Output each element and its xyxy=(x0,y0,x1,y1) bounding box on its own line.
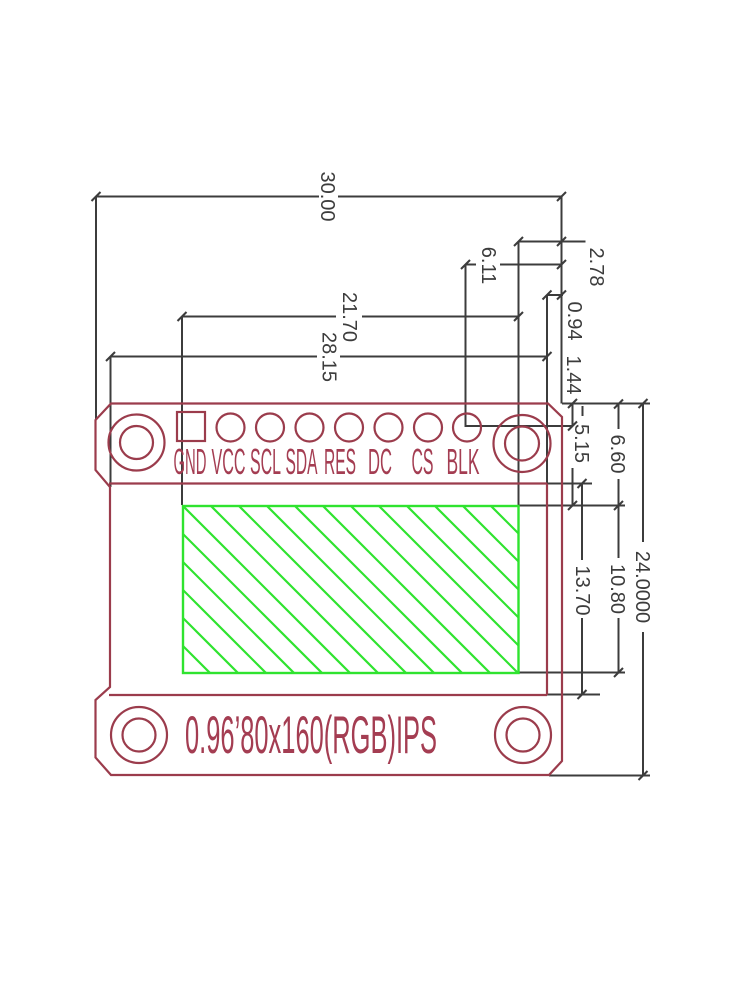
pad CS xyxy=(414,414,442,442)
svg-text:1.44: 1.44 xyxy=(562,356,584,395)
dimension 28.15 line xyxy=(111,356,548,358)
dimension 10.80 line xyxy=(618,506,620,673)
dimension 5.15 line xyxy=(572,468,574,506)
svg-text:SDA: SDA xyxy=(286,441,318,482)
display active area xyxy=(183,506,519,673)
svg-text:SCL: SCL xyxy=(250,441,281,482)
svg-text:6.11: 6.11 xyxy=(477,247,499,284)
dimension 13.70 ticks xyxy=(578,479,587,699)
svg-text:DC: DC xyxy=(368,441,392,482)
glass bottom right extension xyxy=(519,672,626,674)
dimension 6.11 extension xyxy=(465,265,467,428)
dimension 1.44 stub xyxy=(582,406,584,416)
svg-text:RES: RES xyxy=(324,441,356,482)
svg-text:0.94: 0.94 xyxy=(563,302,585,341)
body bottom right extension xyxy=(547,694,600,696)
svg-text:VCC: VCC xyxy=(212,441,246,482)
pad SDA xyxy=(296,414,324,442)
strip line right extension xyxy=(548,483,592,485)
pad DC xyxy=(375,414,403,442)
svg-text:13.70: 13.70 xyxy=(571,565,593,615)
svg-text:0.96’80x160(RGB)IPS: 0.96’80x160(RGB)IPS xyxy=(185,706,437,765)
dimension 5.15 ticks xyxy=(568,422,577,511)
svg-text:28.15: 28.15 xyxy=(318,332,340,382)
dimension 21.70 ticks xyxy=(178,312,524,321)
dimension 6.11 line xyxy=(466,264,562,266)
dimension 6.60 ticks xyxy=(614,400,623,511)
glass right edge xyxy=(546,484,548,696)
svg-text:2.78: 2.78 xyxy=(585,248,607,287)
svg-text:24.0000: 24.0000 xyxy=(631,551,653,623)
dimension 28.15 ticks xyxy=(106,352,552,361)
svg-text:BLK: BLK xyxy=(447,441,480,482)
pad GND square xyxy=(177,412,205,441)
glass top right extension xyxy=(519,505,626,507)
dimension 6.11 ticks xyxy=(461,260,566,269)
svg-text:21.70: 21.70 xyxy=(338,292,360,342)
dimension 10.80 ticks xyxy=(614,668,623,677)
mounting hole bottom-left xyxy=(111,707,167,763)
mounting hole top-right xyxy=(494,415,551,472)
dimension 30.00 extension right xyxy=(561,197,563,404)
svg-text:6.60: 6.60 xyxy=(606,435,628,474)
mounting hole top-left xyxy=(109,415,165,471)
dimension 24.0000 ticks xyxy=(639,399,648,780)
board outline xyxy=(96,404,563,776)
svg-text:30.00: 30.00 xyxy=(316,171,338,221)
top strip inner line xyxy=(109,482,547,484)
svg-text:10.80: 10.80 xyxy=(606,564,628,614)
bottom strip inner line xyxy=(109,694,547,696)
dimension 2.78 ticks xyxy=(514,237,566,246)
dimension 28.15 extension right xyxy=(546,295,548,484)
display hatch xyxy=(15,506,719,706)
dimension 0.94 line xyxy=(547,294,563,296)
pad BLK xyxy=(453,414,481,442)
pad RES xyxy=(335,414,363,442)
dimension 30.00 extension left xyxy=(95,197,97,421)
dimension 24.0000 line xyxy=(642,404,644,776)
svg-text:5.15: 5.15 xyxy=(570,424,592,463)
pin row center extension xyxy=(466,425,573,427)
svg-text:CS: CS xyxy=(412,441,434,482)
svg-text:GND: GND xyxy=(174,441,207,482)
dimension 28.15 extension left xyxy=(110,357,112,488)
dimension 21.70 line xyxy=(182,316,519,318)
pad VCC xyxy=(217,414,245,442)
dimension 1.44 line xyxy=(572,404,574,427)
top edge right extension xyxy=(562,403,650,405)
pad SCL xyxy=(256,414,284,442)
mounting hole bottom-right xyxy=(495,707,551,763)
dimension 6.60 line xyxy=(618,404,620,506)
dimension 0.94 ticks xyxy=(543,291,567,300)
dimension 1.44 ticks xyxy=(568,399,577,408)
dimension 21.70 extension left xyxy=(181,317,183,506)
dimension 2.78 line xyxy=(519,241,586,243)
dimension 21.70 extension right xyxy=(518,242,520,506)
board bottom right extension xyxy=(549,775,650,777)
dimension 30.00 line xyxy=(96,196,562,198)
dimension 13.70 line xyxy=(581,484,583,695)
dimension 30.00 ticks xyxy=(92,192,567,201)
